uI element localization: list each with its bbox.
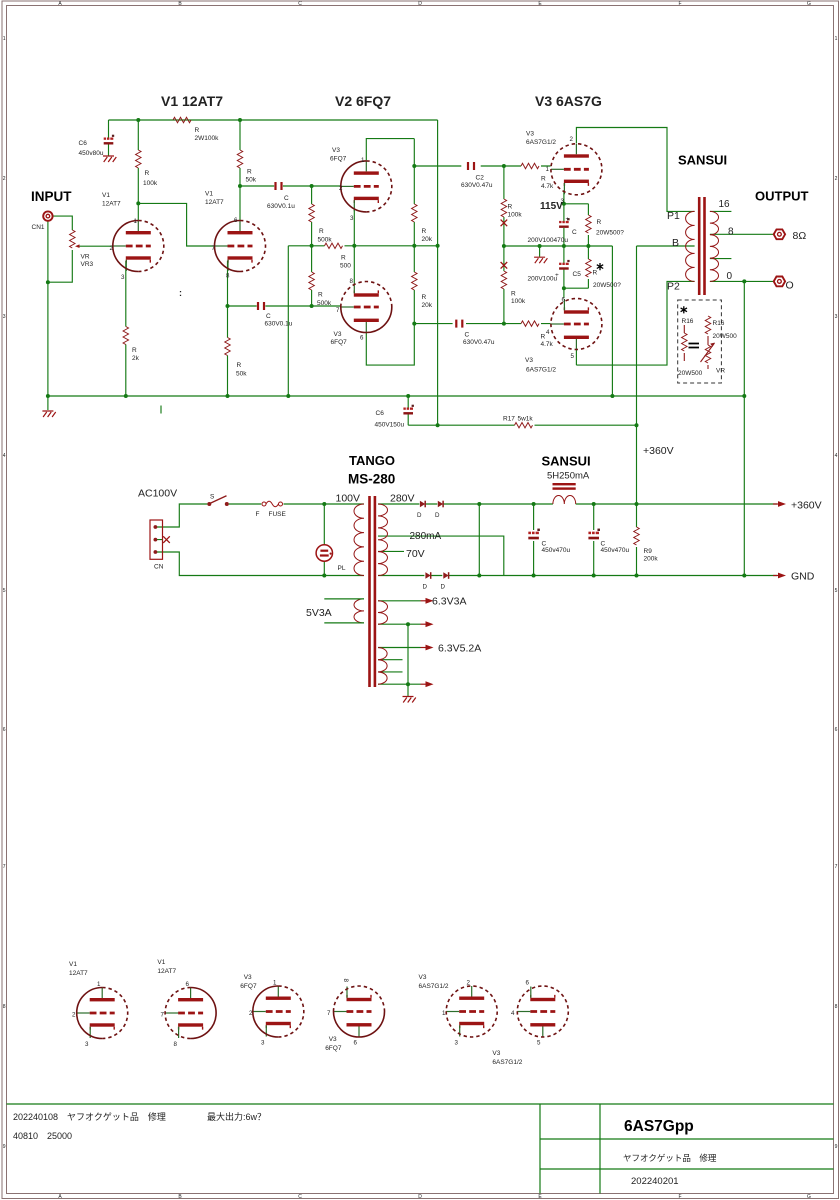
- svg-text:630V0.47u: 630V0.47u: [463, 339, 495, 346]
- svg-text:6: 6: [835, 727, 838, 733]
- svg-text:8: 8: [835, 1004, 838, 1010]
- svg-text:AC100V: AC100V: [138, 488, 177, 500]
- svg-text:R16: R16: [682, 318, 694, 325]
- svg-text:C5: C5: [573, 271, 582, 278]
- svg-text:5w1k: 5w1k: [518, 416, 534, 423]
- svg-text:6AS7G1/2: 6AS7G1/2: [492, 1059, 522, 1066]
- svg-text:O: O: [786, 280, 794, 292]
- svg-text:R: R: [319, 228, 324, 235]
- svg-text:1: 1: [546, 166, 550, 173]
- svg-text:INPUT: INPUT: [31, 189, 72, 204]
- svg-text:+360V: +360V: [791, 500, 822, 512]
- svg-text:F: F: [256, 511, 260, 518]
- svg-text:4: 4: [546, 329, 550, 336]
- svg-text:V1: V1: [205, 191, 213, 198]
- svg-text:R: R: [508, 204, 513, 211]
- svg-text:6FQ7: 6FQ7: [240, 983, 257, 990]
- svg-text:2: 2: [835, 176, 838, 182]
- svg-text:+: +: [555, 272, 559, 279]
- svg-text:D: D: [423, 584, 428, 591]
- svg-text:280mA: 280mA: [410, 531, 442, 542]
- svg-text:C2: C2: [476, 175, 485, 182]
- svg-text:SANSUI: SANSUI: [678, 153, 727, 168]
- svg-text:5V3A: 5V3A: [306, 607, 332, 619]
- svg-text:6AS7G1/2: 6AS7G1/2: [419, 983, 449, 990]
- svg-text:20k: 20k: [422, 302, 433, 309]
- svg-text:1: 1: [442, 1010, 446, 1017]
- svg-text:280V: 280V: [390, 493, 415, 505]
- svg-text:6: 6: [562, 297, 566, 304]
- svg-text:450V150u: 450V150u: [375, 422, 405, 429]
- svg-text:20W500?: 20W500?: [593, 282, 621, 289]
- svg-text:D: D: [418, 1194, 422, 1200]
- svg-text:20W500: 20W500: [713, 333, 738, 340]
- svg-text:F: F: [678, 1, 681, 7]
- svg-text:5: 5: [835, 588, 838, 594]
- svg-text:6FQ7: 6FQ7: [325, 1045, 342, 1052]
- svg-text:4.7k: 4.7k: [541, 341, 554, 348]
- svg-text:7: 7: [835, 864, 838, 870]
- svg-text:G: G: [807, 1, 811, 7]
- svg-text:2k: 2k: [132, 355, 140, 362]
- svg-text:1: 1: [361, 157, 365, 164]
- svg-text:8Ω: 8Ω: [793, 230, 807, 242]
- svg-text:5: 5: [537, 1040, 541, 1047]
- svg-text:V3 6AS7G: V3 6AS7G: [535, 93, 602, 109]
- svg-text:6: 6: [354, 1040, 358, 1047]
- svg-text:8: 8: [728, 227, 734, 238]
- svg-text:V3: V3: [419, 974, 427, 981]
- svg-text:6FQ7: 6FQ7: [331, 339, 348, 346]
- svg-text:70V: 70V: [406, 548, 425, 560]
- svg-text:R: R: [422, 228, 427, 235]
- svg-text:2: 2: [72, 1012, 76, 1019]
- svg-text:3: 3: [350, 215, 354, 222]
- svg-text:V1: V1: [69, 961, 77, 968]
- svg-text:SANSUI: SANSUI: [542, 454, 591, 469]
- svg-text:100k: 100k: [508, 212, 523, 219]
- svg-text:6AS7G1/2: 6AS7G1/2: [526, 367, 556, 374]
- svg-text:0: 0: [727, 271, 733, 282]
- svg-text:6AS7Gpp: 6AS7Gpp: [624, 1118, 694, 1135]
- svg-text:PL: PL: [338, 565, 346, 572]
- svg-text:D: D: [418, 1, 422, 7]
- svg-text:C: C: [266, 313, 271, 320]
- svg-text:2: 2: [570, 136, 574, 143]
- svg-text:R: R: [422, 294, 427, 301]
- svg-text:C6: C6: [376, 410, 385, 417]
- svg-text:8: 8: [342, 979, 349, 983]
- svg-text:V3: V3: [329, 1036, 337, 1043]
- svg-text:3: 3: [835, 314, 838, 320]
- svg-text:12AT7: 12AT7: [205, 199, 224, 206]
- svg-text:500: 500: [340, 263, 351, 270]
- svg-text:+: +: [566, 216, 570, 223]
- svg-text:V3: V3: [492, 1050, 500, 1057]
- svg-text:9: 9: [3, 1144, 6, 1150]
- svg-text:7: 7: [3, 864, 6, 870]
- svg-text:200V100u: 200V100u: [528, 276, 558, 283]
- svg-text:CN: CN: [154, 564, 164, 571]
- svg-text:最大出力:6w？: 最大出力:6w？: [207, 1111, 266, 1122]
- svg-text:R: R: [341, 255, 346, 262]
- svg-text:8: 8: [226, 273, 230, 280]
- svg-text:200V100470u: 200V100470u: [528, 237, 569, 244]
- svg-text:100k: 100k: [511, 298, 526, 305]
- svg-text:7: 7: [212, 245, 216, 252]
- svg-text:5: 5: [571, 353, 575, 360]
- svg-text:VR3: VR3: [81, 261, 94, 268]
- svg-text:6: 6: [526, 980, 530, 987]
- svg-text:R: R: [195, 127, 200, 134]
- svg-text:C: C: [298, 1, 302, 7]
- svg-text:6.3V5.2A: 6.3V5.2A: [438, 643, 481, 655]
- svg-text:1: 1: [835, 36, 838, 42]
- svg-text:R16: R16: [713, 320, 725, 327]
- svg-text:450v470u: 450v470u: [542, 547, 571, 554]
- svg-text:8: 8: [350, 278, 354, 285]
- svg-text:OUTPUT: OUTPUT: [755, 189, 809, 204]
- svg-text:V1: V1: [157, 959, 165, 966]
- svg-text:202240201: 202240201: [631, 1176, 679, 1187]
- svg-text:2: 2: [110, 245, 114, 252]
- svg-text:ヤフオクゲット品 修理: ヤフオクゲット品 修理: [623, 1153, 717, 1163]
- svg-text:450v80u: 450v80u: [79, 150, 104, 157]
- svg-text:2W100k: 2W100k: [195, 135, 220, 142]
- svg-text:3: 3: [455, 1040, 459, 1047]
- svg-text:8: 8: [174, 1041, 178, 1048]
- svg-text:CN1: CN1: [32, 224, 45, 231]
- svg-text:D: D: [435, 512, 440, 519]
- svg-text:40810 25000: 40810 25000: [13, 1131, 72, 1141]
- svg-text:MS-280: MS-280: [348, 472, 395, 487]
- svg-text:C6: C6: [79, 140, 88, 147]
- svg-text:R: R: [597, 219, 602, 226]
- svg-text:500k: 500k: [317, 300, 332, 307]
- svg-text:3: 3: [261, 1040, 265, 1047]
- svg-text:2: 2: [249, 1010, 253, 1017]
- svg-text:20k: 20k: [422, 236, 433, 243]
- svg-text:VR: VR: [716, 368, 725, 375]
- svg-text:P1: P1: [667, 210, 680, 222]
- svg-text:20W500: 20W500: [678, 370, 703, 377]
- svg-text:2: 2: [3, 176, 6, 182]
- svg-text:4: 4: [511, 1010, 515, 1017]
- svg-text:V3: V3: [334, 331, 342, 338]
- svg-text:R: R: [541, 334, 546, 341]
- svg-text:6AS7G1/2: 6AS7G1/2: [526, 139, 556, 146]
- svg-text:3: 3: [121, 274, 125, 281]
- svg-text::: :: [179, 288, 182, 298]
- svg-text:6: 6: [186, 981, 190, 988]
- svg-text:R9: R9: [644, 548, 653, 555]
- svg-text:12AT7: 12AT7: [157, 968, 176, 975]
- svg-text:3: 3: [561, 198, 565, 205]
- svg-text:202240108 ヤフオクゲット品 修理: 202240108 ヤフオクゲット品 修理: [13, 1111, 166, 1122]
- svg-text:R: R: [145, 170, 150, 177]
- svg-text:V3: V3: [244, 974, 252, 981]
- svg-text:TANGO: TANGO: [349, 453, 395, 468]
- svg-text:R: R: [132, 347, 137, 354]
- svg-text:V1: V1: [102, 192, 110, 199]
- svg-text:C: C: [298, 1194, 302, 1200]
- svg-text:P2: P2: [667, 281, 680, 293]
- svg-text:+360V: +360V: [643, 445, 674, 457]
- svg-text:9: 9: [835, 1144, 838, 1150]
- svg-text:FUSE: FUSE: [269, 511, 287, 518]
- svg-text:1: 1: [3, 36, 6, 42]
- svg-text:R: R: [237, 362, 242, 369]
- svg-text:12AT7: 12AT7: [69, 970, 88, 977]
- svg-text:2: 2: [467, 980, 471, 987]
- svg-text:8: 8: [3, 1004, 6, 1010]
- svg-text:12AT7: 12AT7: [102, 201, 121, 208]
- svg-text:VR: VR: [81, 254, 90, 261]
- svg-text:C: C: [284, 195, 289, 202]
- svg-text:50k: 50k: [236, 371, 247, 378]
- svg-text:100k: 100k: [143, 180, 158, 187]
- svg-text:2: 2: [339, 185, 343, 192]
- svg-text:C: C: [465, 332, 470, 339]
- svg-text:50k: 50k: [246, 177, 257, 184]
- svg-text:20W500?: 20W500?: [596, 230, 624, 237]
- svg-text:7: 7: [336, 307, 340, 314]
- svg-text:R: R: [541, 176, 546, 183]
- svg-text:6: 6: [3, 727, 6, 733]
- svg-text:5H250mA: 5H250mA: [547, 471, 590, 482]
- svg-text:7: 7: [161, 1012, 165, 1019]
- svg-text:630V0.1u: 630V0.1u: [265, 321, 293, 328]
- svg-text:7: 7: [327, 1010, 331, 1017]
- svg-text:1: 1: [273, 980, 277, 987]
- svg-text:R: R: [593, 270, 598, 277]
- svg-text:630V0.1u: 630V0.1u: [267, 203, 295, 210]
- svg-text:V3: V3: [525, 357, 533, 364]
- svg-text:S: S: [210, 494, 215, 501]
- svg-text:200k: 200k: [644, 556, 659, 563]
- svg-text:GND: GND: [791, 571, 815, 583]
- svg-text:R: R: [247, 169, 252, 176]
- svg-text:6: 6: [360, 335, 364, 342]
- svg-text:3: 3: [3, 314, 6, 320]
- svg-text:4: 4: [835, 453, 838, 459]
- svg-text:6: 6: [234, 217, 238, 224]
- svg-text:630V0.47u: 630V0.47u: [461, 182, 493, 189]
- svg-text:D: D: [441, 584, 446, 591]
- svg-text:R: R: [511, 291, 516, 298]
- svg-text:16: 16: [719, 199, 731, 210]
- svg-text:R: R: [318, 292, 323, 299]
- svg-text:100V: 100V: [336, 493, 361, 505]
- svg-text:G: G: [807, 1194, 811, 1200]
- svg-text:V3: V3: [526, 131, 534, 138]
- svg-text:5: 5: [3, 588, 6, 594]
- svg-text:F: F: [678, 1194, 681, 1200]
- svg-text:500k: 500k: [318, 237, 333, 244]
- svg-text:4: 4: [3, 453, 6, 459]
- svg-text:V2 6FQ7: V2 6FQ7: [335, 93, 391, 109]
- svg-text:1: 1: [97, 981, 101, 988]
- svg-text:C: C: [572, 229, 577, 236]
- svg-text:V1 12AT7: V1 12AT7: [161, 93, 223, 109]
- svg-text:V3: V3: [332, 147, 340, 154]
- svg-text:6.3V3A: 6.3V3A: [432, 596, 466, 608]
- svg-text:B: B: [672, 237, 679, 249]
- svg-text:D: D: [417, 512, 422, 519]
- svg-text:1: 1: [134, 218, 138, 225]
- svg-text:6FQ7: 6FQ7: [330, 156, 347, 163]
- svg-text:3: 3: [85, 1041, 89, 1048]
- svg-text:450v470u: 450v470u: [601, 547, 630, 554]
- svg-text:R17: R17: [503, 416, 515, 423]
- svg-text:4.7k: 4.7k: [541, 183, 554, 190]
